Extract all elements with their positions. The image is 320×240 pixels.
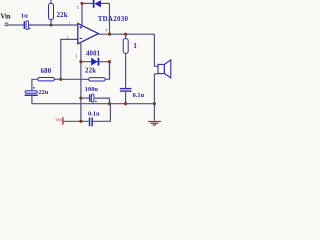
node dot D2 left xyxy=(79,60,82,63)
svg-text:680: 680 xyxy=(41,68,52,75)
node dot vss junction xyxy=(79,120,82,123)
diode D1 xyxy=(82,0,110,8)
wire input to C1 xyxy=(8,24,24,26)
wire speaker return to rail xyxy=(153,74,155,104)
capacitor C5 0.1u plates xyxy=(89,118,93,127)
svg-text:22u: 22u xyxy=(38,89,48,96)
svg-text:3: 3 xyxy=(75,55,77,59)
node output junction at diode loop xyxy=(108,33,111,36)
node dot ground junction xyxy=(153,102,156,105)
resistor R2 22k feedback xyxy=(89,78,106,81)
resistor R3 1 ohm xyxy=(123,34,128,88)
node dot D2 right xyxy=(108,60,111,63)
wire output to speaker xyxy=(153,34,155,66)
ground xyxy=(148,122,161,126)
wire pin5 to diode D1 xyxy=(81,3,83,26)
svg-text:22k: 22k xyxy=(85,68,96,75)
svg-text:100u: 100u xyxy=(85,86,99,93)
svg-text:vss: vss xyxy=(55,117,62,123)
svg-text:4: 4 xyxy=(105,29,107,33)
wire D2 right up to output xyxy=(109,62,111,80)
wire pin3 vertical down xyxy=(80,42,82,122)
svg-text:0.1u: 0.1u xyxy=(133,92,145,99)
node dot rail junction C3/C5 xyxy=(108,102,111,105)
node dot C3 left xyxy=(79,97,82,100)
node dot C4 rail xyxy=(124,102,127,105)
resistor R1 22k (pull-up) xyxy=(49,0,54,25)
wire feedback node to R2 xyxy=(61,78,89,80)
wire R2 to output loop xyxy=(105,62,109,80)
wire ground rail xyxy=(32,103,154,105)
wire inverting input xyxy=(61,39,78,79)
diode D2 xyxy=(81,58,110,66)
wire output xyxy=(98,33,154,35)
svg-text:0.1u: 0.1u xyxy=(88,110,100,117)
capacitor C4 0.1u plates xyxy=(120,88,132,104)
svg-text:22k: 22k xyxy=(57,12,68,19)
svg-text:5: 5 xyxy=(77,6,79,10)
node output junction at R3 xyxy=(124,33,127,36)
node dot pin5 corner xyxy=(80,2,83,5)
node dot feedback junction xyxy=(59,78,62,81)
wire 680 left lead down xyxy=(32,79,38,91)
resistor R4 680 xyxy=(38,78,55,81)
wire to ground xyxy=(153,104,155,121)
svg-text:1: 1 xyxy=(133,42,137,50)
capacitor C3 100u xyxy=(81,94,110,104)
wire C5 to vss xyxy=(63,120,88,122)
wire 680 right lead xyxy=(54,78,60,80)
wire C1 to op-amp + input xyxy=(29,24,78,26)
speaker LS1 xyxy=(154,60,170,78)
node junction dot at R1 bottom xyxy=(49,23,52,26)
op-amp U1 TDA2030 triangle xyxy=(78,23,99,43)
svg-text:Vin: Vin xyxy=(0,14,11,21)
capacitor C1 plates xyxy=(24,21,31,30)
svg-text:1u: 1u xyxy=(21,13,28,20)
wire C5 loop from rail xyxy=(93,104,110,122)
svg-text:TDA2030: TDA2030 xyxy=(98,15,129,23)
capacitor C2 22u xyxy=(25,87,38,104)
svg-text:1: 1 xyxy=(69,21,71,25)
power port vss xyxy=(55,117,63,125)
input terminal xyxy=(5,23,8,26)
wire D1 down to output xyxy=(109,3,111,34)
svg-text:4001: 4001 xyxy=(86,50,101,57)
